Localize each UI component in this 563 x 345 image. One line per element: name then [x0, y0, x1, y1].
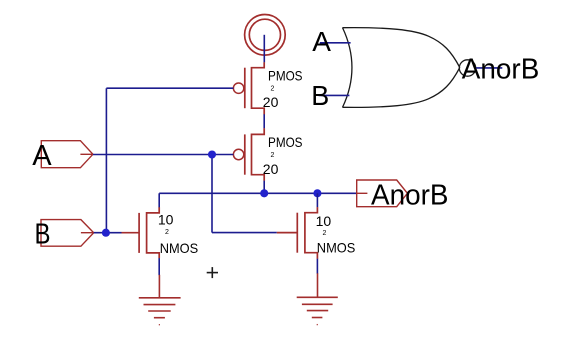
wire B junction up — [105, 88, 107, 233]
svg-text:A: A — [32, 140, 52, 172]
wire output rail — [159, 192, 357, 194]
svg-text:NMOS: NMOS — [317, 239, 356, 255]
input pin A — [41, 141, 93, 168]
svg-text:2: 2 — [165, 229, 169, 236]
transistor M1 PMOS — [233, 62, 264, 114]
wire A junction down — [211, 155, 213, 233]
svg-text:PMOS: PMOS — [268, 67, 303, 83]
power symbol VDD — [245, 15, 286, 56]
junction node M4 drain on rail — [313, 189, 321, 197]
wire NOR output — [475, 67, 502, 69]
junction node B — [102, 229, 110, 237]
wire M1 source to M2 drain — [263, 114, 265, 128]
svg-text:B: B — [35, 219, 51, 251]
svg-text:NMOS: NMOS — [160, 240, 199, 256]
svg-text:2: 2 — [271, 152, 275, 159]
junction node A — [208, 150, 216, 158]
wire A to M4 gate — [212, 232, 277, 234]
wire M4 source to ground — [316, 259, 318, 274]
ground symbol left — [139, 275, 181, 325]
junction node M2 source on rail — [260, 189, 268, 197]
wire M3 source to ground — [158, 258, 160, 275]
svg-text:2: 2 — [271, 86, 275, 93]
svg-text:20: 20 — [263, 161, 279, 177]
transistor M3 NMOS — [122, 207, 160, 258]
svg-text:B: B — [311, 80, 329, 111]
transistor M4 NMOS — [277, 207, 318, 259]
wire rail to M4 drain — [316, 193, 318, 207]
svg-text:20: 20 — [263, 94, 279, 110]
svg-text:A: A — [312, 26, 331, 57]
svg-text:PMOS: PMOS — [268, 134, 303, 150]
svg-text:10: 10 — [158, 212, 174, 228]
wire B to M3 gate — [94, 232, 122, 234]
NOR gate U1 body — [343, 28, 476, 108]
wire NOR input B — [319, 94, 350, 96]
wire rail to M3 drain — [158, 193, 160, 207]
transistor M2 PMOS — [233, 128, 264, 181]
svg-text:AnorB: AnorB — [371, 180, 449, 212]
wire M2 source to output node — [263, 181, 265, 194]
ground symbol right — [297, 273, 338, 324]
wire A to M2 gate — [93, 154, 233, 156]
wire B to M1 gate — [106, 87, 233, 89]
wire NOR input A — [320, 42, 351, 44]
input pin B — [41, 220, 94, 247]
plus mark origin — [207, 267, 218, 278]
wire VDD to M1 drain — [263, 35, 265, 63]
svg-text:2: 2 — [323, 230, 327, 237]
output pin AnorB — [357, 180, 408, 207]
svg-text:AnorB: AnorB — [462, 53, 540, 85]
svg-text:10: 10 — [316, 213, 332, 229]
